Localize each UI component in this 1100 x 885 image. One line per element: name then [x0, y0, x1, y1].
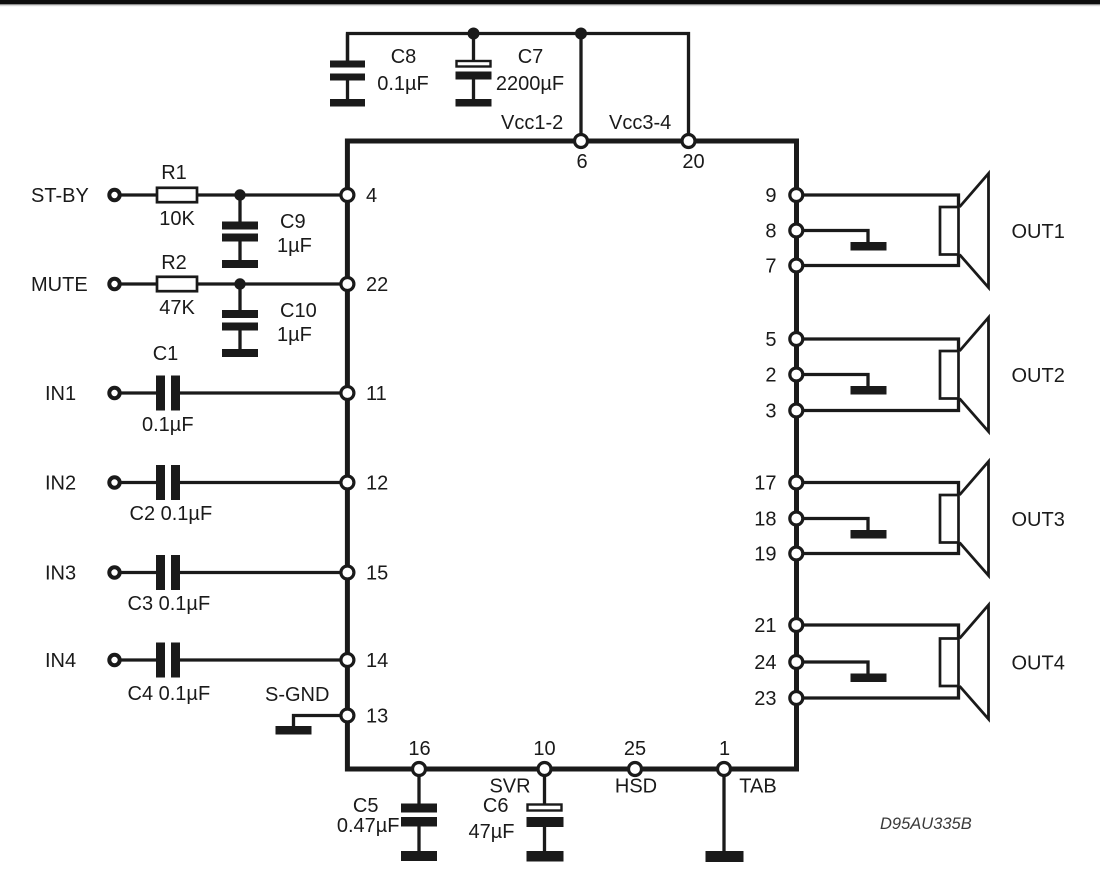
wire C1 to pin 11: [180, 391, 344, 394]
pin 1: [718, 763, 731, 776]
svg-text:19: 19: [754, 544, 776, 566]
pin 3: [790, 404, 803, 417]
pin 23: [790, 692, 803, 705]
speaker OUT3 horn: [960, 462, 989, 576]
wire R1 to pin 4: [197, 193, 344, 196]
pin 24: [790, 656, 803, 669]
pin 9: [790, 189, 803, 202]
wire MUTE terminal to R2: [122, 282, 158, 285]
resistor R2: [157, 277, 197, 291]
svg-text:24: 24: [754, 652, 776, 674]
wire pin 2 to ground OUT2: [803, 375, 868, 387]
svg-text:13: 13: [366, 706, 388, 728]
svg-text:C3 0.1µF: C3 0.1µF: [128, 593, 211, 615]
wire pin 18 to ground OUT3: [803, 519, 868, 531]
svg-text:5: 5: [765, 329, 776, 351]
svg-text:25: 25: [624, 738, 646, 760]
svg-text:18: 18: [754, 509, 776, 531]
junction supply bus / C7: [468, 28, 480, 40]
pin 7: [790, 259, 803, 272]
pin 12: [341, 476, 354, 489]
wire pin 8 to ground OUT1: [803, 231, 868, 243]
svg-text:C4 0.1µF: C4 0.1µF: [128, 683, 211, 705]
svg-text:10K: 10K: [159, 208, 195, 230]
wire supply bus branch to pin 6: [579, 34, 582, 137]
pin 20: [682, 135, 695, 148]
svg-text:Vcc3-4: Vcc3-4: [609, 112, 671, 134]
wire C4 to pin 14: [180, 658, 344, 661]
svg-text:22: 22: [366, 274, 388, 296]
speaker OUT2 horn: [960, 318, 989, 432]
svg-text:R2: R2: [161, 252, 187, 274]
wire C2 to pin 12: [180, 481, 344, 484]
capacitor C1: [156, 376, 180, 411]
svg-text:C5: C5: [353, 795, 379, 817]
capacitor C7 electrolytic: [456, 34, 492, 100]
junction R2 / C10: [234, 278, 245, 289]
svg-text:2: 2: [765, 365, 776, 387]
svg-text:S-GND: S-GND: [265, 684, 329, 706]
svg-text:C9: C9: [280, 211, 306, 233]
svg-text:0.47µF: 0.47µF: [337, 815, 400, 837]
terminal MUTE: [109, 279, 119, 289]
svg-text:16: 16: [408, 738, 430, 760]
pin 10: [538, 763, 551, 776]
pin 17: [790, 476, 803, 489]
capacitor C6 electrolytic: [527, 776, 564, 851]
svg-text:1µF: 1µF: [277, 324, 312, 346]
pin 22: [341, 278, 354, 291]
svg-text:1: 1: [719, 738, 730, 760]
pin 18: [790, 512, 803, 525]
terminal IN4: [109, 655, 119, 665]
ground S-GND: [276, 726, 312, 735]
svg-text:HSD: HSD: [615, 776, 657, 798]
ground C9: [222, 260, 258, 268]
capacitor C5: [401, 776, 437, 851]
pin 2: [790, 368, 803, 381]
ground C10: [222, 349, 258, 357]
wire supply bus (C8 to pin 20 corner): [348, 34, 689, 137]
terminal ST-BY: [109, 190, 119, 200]
resistor R1: [157, 188, 197, 202]
ground C8: [330, 99, 365, 107]
svg-text:2200µF: 2200µF: [496, 73, 564, 95]
speaker OUT1 horn: [960, 174, 989, 288]
svg-text:47K: 47K: [159, 297, 195, 319]
wire C3 to pin 15: [180, 571, 344, 574]
speaker OUT2 driver: [940, 351, 959, 399]
svg-text:C8: C8: [391, 46, 417, 68]
ground OUT4 return: [851, 674, 887, 683]
svg-text:12: 12: [366, 473, 388, 495]
wire IN4 to C4: [122, 658, 157, 661]
svg-text:21: 21: [754, 615, 776, 637]
wire pin 17 to speaker OUT3: [803, 483, 959, 496]
svg-text:MUTE: MUTE: [31, 274, 88, 296]
capacitor C2: [156, 465, 180, 500]
svg-text:11: 11: [366, 383, 387, 405]
svg-text:ST-BY: ST-BY: [31, 185, 89, 207]
svg-text:C2 0.1µF: C2 0.1µF: [130, 503, 213, 525]
wire R2 to pin 22: [197, 282, 344, 285]
wire pin 21 to speaker OUT4: [803, 625, 959, 639]
IC body U1 power amplifier: [347, 141, 796, 769]
ground C5: [401, 851, 437, 861]
wire pin 1 TAB to ground: [722, 776, 725, 851]
speaker OUT3 driver: [940, 495, 959, 543]
pin 8: [790, 224, 803, 237]
wire IN2 to C2: [122, 481, 157, 484]
svg-text:10: 10: [533, 738, 555, 760]
wire pin 9 to speaker OUT1: [803, 195, 959, 207]
svg-text:23: 23: [754, 688, 776, 710]
terminal IN1: [109, 388, 119, 398]
svg-text:OUT3: OUT3: [1012, 509, 1065, 531]
pin 25: [629, 763, 642, 776]
speaker OUT4 horn: [960, 605, 989, 719]
capacitor C8: [330, 34, 365, 100]
svg-text:47µF: 47µF: [469, 821, 515, 843]
wire pin 3 to speaker OUT2: [803, 399, 959, 411]
svg-text:IN3: IN3: [45, 563, 76, 585]
svg-text:4: 4: [366, 185, 377, 207]
pin 13: [341, 709, 354, 722]
wire pin 23 to speaker OUT4: [803, 686, 959, 698]
wire ST-BY terminal to R1: [122, 193, 158, 196]
svg-text:14: 14: [366, 650, 388, 672]
svg-text:7: 7: [765, 256, 776, 278]
ground OUT3 return: [851, 530, 887, 539]
speaker OUT1 driver: [940, 207, 959, 255]
pin 21: [790, 619, 803, 632]
wire IN1 to C1: [122, 391, 157, 394]
ground OUT2 return: [851, 386, 887, 395]
svg-text:OUT2: OUT2: [1012, 365, 1065, 387]
svg-text:IN1: IN1: [45, 383, 76, 405]
wire pin 7 to speaker OUT1: [803, 255, 959, 266]
pin 11: [341, 387, 354, 400]
pin 19: [790, 547, 803, 560]
svg-text:C10: C10: [280, 300, 317, 322]
terminal IN2: [109, 477, 119, 487]
svg-text:IN4: IN4: [45, 650, 76, 672]
wire pin 13 to signal ground: [294, 716, 342, 727]
pin 16: [413, 763, 426, 776]
svg-text:20: 20: [682, 151, 704, 173]
svg-text:R1: R1: [161, 162, 187, 184]
pin 5: [790, 333, 803, 346]
svg-text:IN2: IN2: [45, 473, 76, 495]
ground TAB: [706, 851, 744, 862]
svg-text:15: 15: [366, 563, 388, 585]
pin 14: [341, 654, 354, 667]
svg-text:OUT1: OUT1: [1012, 221, 1065, 243]
junction R1 / C9: [234, 189, 245, 200]
svg-text:OUT4: OUT4: [1012, 653, 1065, 675]
svg-text:C1: C1: [153, 343, 179, 365]
capacitor C10: [222, 284, 258, 349]
svg-text:3: 3: [765, 401, 776, 423]
terminal IN3: [109, 567, 119, 577]
capacitor C9: [222, 195, 258, 260]
pin 6: [575, 135, 588, 148]
capacitor C3: [156, 555, 180, 590]
svg-text:6: 6: [576, 151, 587, 173]
svg-text:9: 9: [765, 185, 776, 207]
ground C6: [527, 851, 564, 862]
svg-text:0.1µF: 0.1µF: [142, 414, 194, 436]
wire pin 19 to speaker OUT3: [803, 543, 959, 554]
svg-text:D95AU335B: D95AU335B: [880, 815, 972, 833]
svg-text:C6: C6: [483, 795, 509, 817]
wire IN3 to C3: [122, 571, 157, 574]
wire pin 24 to ground OUT4: [803, 662, 868, 674]
svg-text:C7: C7: [518, 46, 544, 68]
svg-text:1µF: 1µF: [277, 235, 312, 257]
ground OUT1 return: [851, 242, 887, 251]
pin 15: [341, 566, 354, 579]
svg-text:Vcc1-2: Vcc1-2: [501, 112, 563, 134]
capacitor C4: [156, 643, 180, 678]
svg-text:0.1µF: 0.1µF: [377, 73, 429, 95]
wire pin 5 to speaker OUT2: [803, 339, 959, 351]
svg-text:8: 8: [765, 221, 776, 243]
pin 4: [341, 189, 354, 202]
speaker OUT4 driver: [940, 639, 959, 687]
svg-text:TAB: TAB: [739, 776, 776, 798]
ground C7: [456, 99, 492, 107]
junction supply bus / pin 6 branch: [575, 28, 587, 40]
svg-text:17: 17: [754, 473, 776, 495]
